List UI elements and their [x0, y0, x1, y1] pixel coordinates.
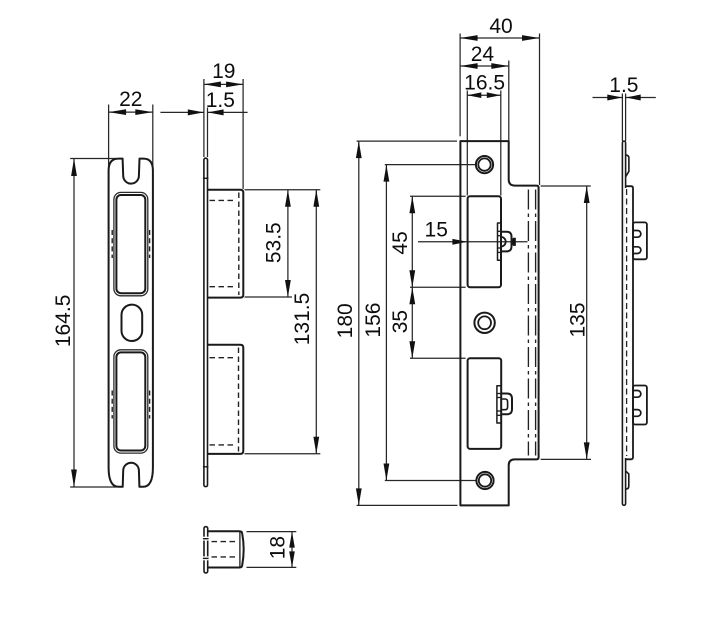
- svg-text:15: 15: [425, 219, 448, 242]
- svg-text:24: 24: [471, 43, 495, 66]
- svg-text:53.5: 53.5: [263, 222, 286, 263]
- svg-text:35: 35: [389, 310, 412, 333]
- svg-text:156: 156: [362, 303, 385, 338]
- svg-text:18: 18: [267, 536, 290, 559]
- svg-text:164.5: 164.5: [52, 295, 75, 348]
- svg-text:45: 45: [389, 231, 412, 254]
- svg-text:135: 135: [566, 302, 589, 337]
- svg-text:180: 180: [334, 303, 357, 338]
- svg-text:16.5: 16.5: [464, 72, 505, 95]
- svg-text:1.5: 1.5: [206, 89, 235, 112]
- svg-text:40: 40: [489, 15, 512, 38]
- svg-text:1.5: 1.5: [609, 74, 638, 97]
- svg-text:19: 19: [212, 60, 235, 83]
- svg-text:22: 22: [119, 88, 142, 111]
- svg-text:131.5: 131.5: [291, 293, 314, 346]
